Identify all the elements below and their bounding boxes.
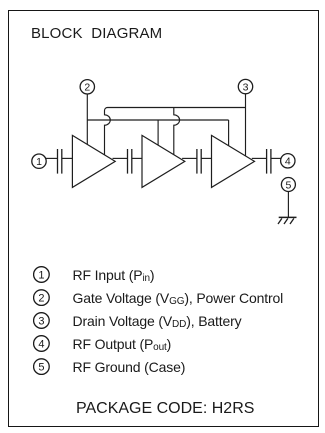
wire amp3 to C4: [252, 157, 267, 159]
schematic svg: [0, 0, 325, 236]
legend text 2: Gate Voltage (VGG), Power Control: [73, 290, 284, 307]
wire drain drop to amp2 with hop over gate bus: [174, 108, 180, 155]
capacitor C3: [197, 149, 201, 174]
wire C1 to amp1: [62, 157, 73, 159]
capacitor C4: [267, 149, 271, 174]
legend circle 3: [34, 313, 50, 329]
capacitor C1: [58, 149, 62, 174]
wire C2 to amp2: [132, 157, 142, 159]
wire gate bus: [87, 119, 228, 121]
wire drain drop to amp1 with hop over gate bus: [105, 108, 111, 155]
svg-text:1: 1: [38, 270, 44, 282]
op-amp stage 1: [72, 135, 115, 187]
wire pin2 stem to amp1 gate: [86, 94, 88, 145]
wire pin5 stem to ground: [287, 192, 289, 218]
wire amp1 to C2: [113, 157, 128, 159]
wire C4 to pin4: [271, 157, 281, 159]
op-amp stage 3: [212, 135, 255, 187]
wire pin3 stem to amp3 drain: [245, 94, 247, 156]
legend text 3: Drain Voltage (VDD), Battery: [73, 313, 242, 330]
ground: [278, 217, 297, 224]
wire drain bus: [108, 107, 246, 109]
svg-text:3: 3: [38, 316, 44, 328]
wire gate branch to amp2: [157, 120, 159, 145]
svg-text:1: 1: [36, 156, 42, 168]
wire pin1 to C1: [46, 157, 58, 159]
svg-text:4: 4: [285, 156, 291, 168]
wire amp2 to C3: [182, 157, 197, 159]
svg-text:5: 5: [285, 179, 291, 191]
legend circle 1: [33, 266, 293, 386]
legend text 5: RF Ground (Case): [73, 359, 186, 375]
legend circle 5: [34, 359, 50, 375]
legend text 4: RF Output (Pout): [73, 336, 172, 353]
footer: PACKAGE CODE: [76, 400, 254, 418]
pin 3 circle: [238, 79, 252, 93]
legend circle 2: [34, 290, 50, 306]
pin 5 circle: [281, 178, 295, 192]
wire gate bus corner drop to amp3: [228, 120, 230, 146]
capacitor C2: [128, 149, 132, 174]
svg-text:2: 2: [84, 82, 90, 94]
pin 1 circle: [32, 154, 46, 168]
wire C3 to amp3: [201, 157, 211, 159]
pin 2 circle: [80, 80, 94, 94]
svg-text:3: 3: [243, 82, 249, 94]
svg-text:2: 2: [38, 293, 44, 305]
title: BLOCK DIAGRAM: [31, 25, 162, 42]
pin 4 circle: [281, 154, 295, 168]
svg-text:4: 4: [38, 339, 44, 351]
op-amp stage 2: [142, 135, 185, 187]
svg-text:5: 5: [38, 362, 44, 374]
legend circle 4: [34, 336, 50, 352]
legend text 1: RF Input (Pin): [73, 267, 155, 284]
